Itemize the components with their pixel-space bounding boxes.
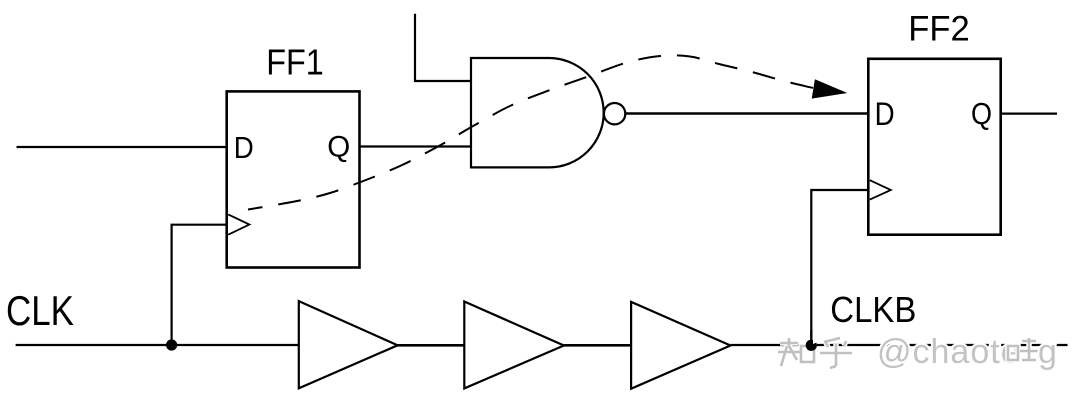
watermark: fake CJK glyph 3 bbox=[1008, 338, 1038, 360]
buffer B1 bbox=[299, 301, 398, 388]
wire: second NAND input from top bbox=[415, 14, 471, 81]
svg-text:FF2: FF2 bbox=[908, 8, 970, 48]
NAND gate U1 body bbox=[471, 58, 604, 167]
watermark: zhihu logo text bbox=[877, 333, 1021, 371]
clock input triangle of FF2 bbox=[870, 180, 891, 199]
svg-text:CLKB: CLKB bbox=[830, 290, 916, 330]
svg-text:g: g bbox=[1038, 333, 1057, 371]
flip-flop FF2 bbox=[868, 59, 1000, 235]
wire: CLK net to buffer B1 bbox=[16, 344, 299, 346]
node: CLKB junction dot redraw bbox=[806, 340, 817, 351]
svg-text:@chaote: @chaote bbox=[877, 333, 1021, 371]
svg-text:Q: Q bbox=[971, 96, 992, 131]
node: CLK junction dot bbox=[166, 339, 177, 350]
wire: CLKB branch up to FF2 clock pin bbox=[811, 190, 868, 345]
wire: D input net to FF1.D bbox=[17, 146, 227, 148]
svg-text:FF1: FF1 bbox=[266, 42, 324, 83]
wire: buffer B1 to buffer B2 bbox=[398, 344, 465, 347]
svg-text:D: D bbox=[234, 130, 254, 165]
buffer B3 bbox=[631, 302, 730, 389]
clock input triangle of FF1 bbox=[228, 214, 249, 234]
svg-text:CLK: CLK bbox=[6, 288, 74, 334]
wire: FF2.Q output bbox=[1001, 112, 1057, 114]
wire: CLKB vertical redraw over watermark bbox=[810, 330, 812, 345]
wire: NAND output to FF2.D bbox=[626, 112, 869, 115]
wire: CLKB net from buffer B3 bbox=[731, 344, 1068, 346]
NAND gate U1 inversion bubble bbox=[604, 103, 625, 124]
dashed timing-path curve from FF1 clock to FF2.D bbox=[248, 55, 813, 209]
watermark bite on junction dot bbox=[813, 338, 818, 344]
node: CLKB junction dot bbox=[806, 340, 817, 351]
svg-text:D: D bbox=[875, 96, 895, 132]
wire: buffer B2 to buffer B3 bbox=[564, 344, 631, 347]
wire: CLK branch up to FF1 clock pin bbox=[172, 225, 227, 345]
wire: FF1.Q to NAND input bbox=[360, 145, 472, 147]
buffer B2 bbox=[464, 302, 564, 389]
svg-text:Q: Q bbox=[327, 131, 350, 164]
flip-flop FF1 bbox=[227, 91, 360, 267]
watermark: fake CJK glyph 2 bbox=[820, 338, 852, 368]
arrowhead of timing-path curve bbox=[812, 79, 848, 98]
watermark: fake CJK glyph 1 bbox=[778, 338, 814, 366]
